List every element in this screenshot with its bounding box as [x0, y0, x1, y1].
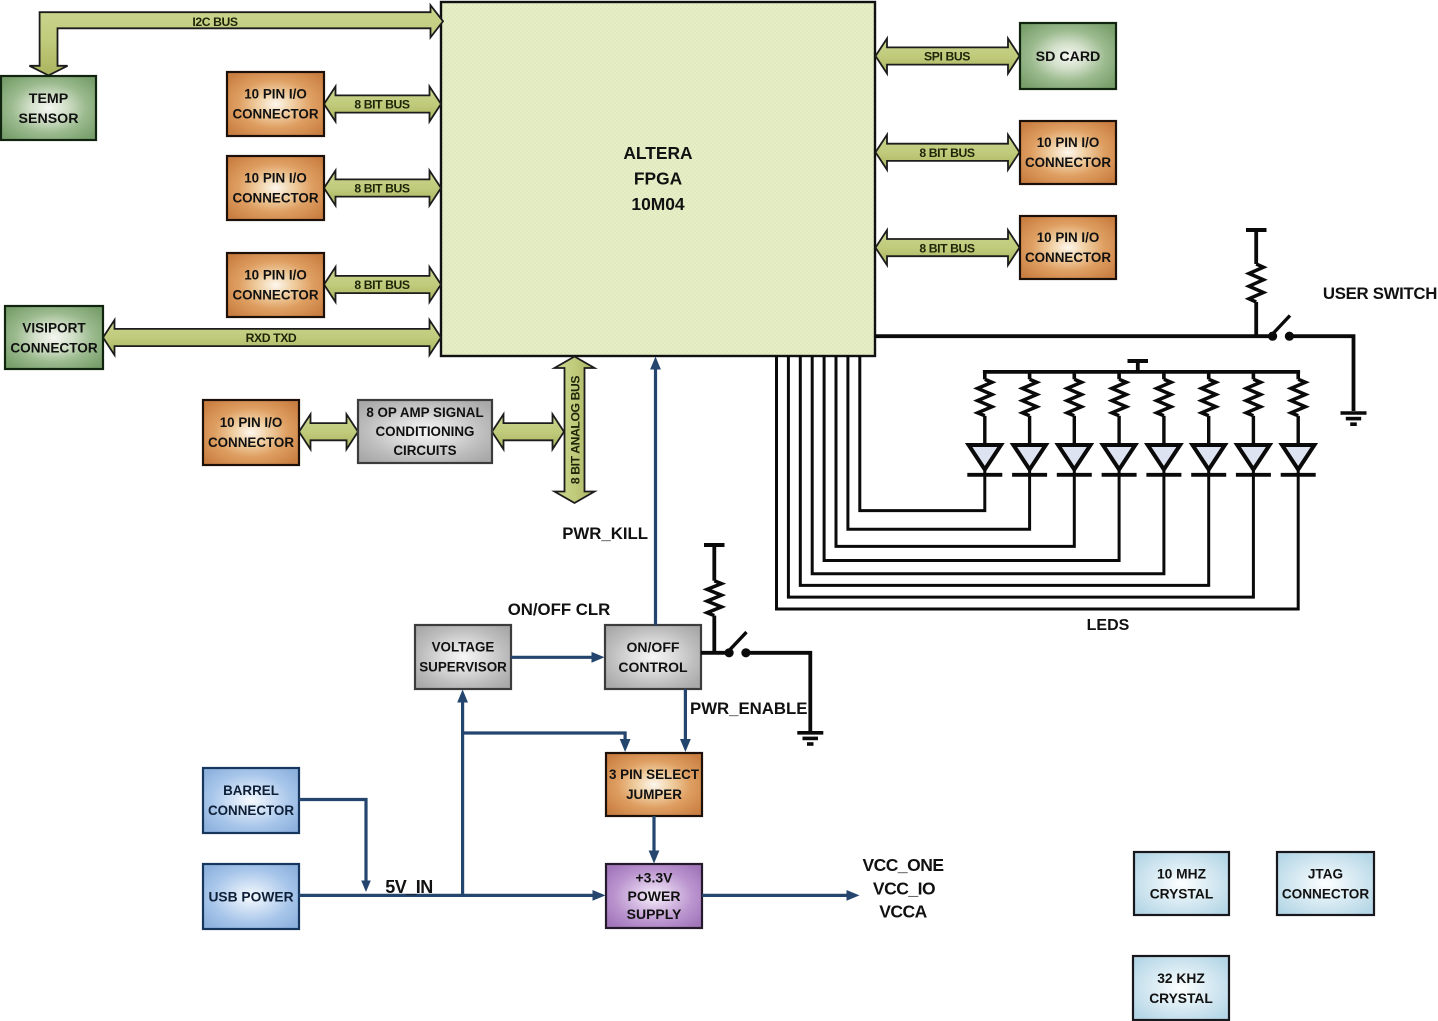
svg-text:CONNECTOR: CONNECTOR	[10, 340, 98, 355]
svg-text:CONTROL: CONTROL	[618, 659, 688, 675]
wire 8 bit bus arrow	[324, 267, 441, 302]
resistor R6 (LED 6)	[1207, 372, 1211, 379]
ground (on/off switch)	[797, 731, 823, 735]
visiport connector	[5, 306, 103, 369]
svg-text:CRYSTAL: CRYSTAL	[1150, 886, 1214, 901]
wire FPGA pin 5 to LED 4	[824, 356, 1119, 561]
wire 8 bit bus arrow	[876, 230, 1020, 265]
svg-text:32 KHZ: 32 KHZ	[1157, 971, 1205, 986]
power rail bar (user switch pull-up)	[1246, 228, 1267, 232]
wire FPGA pin 1 to LED 8	[777, 356, 1299, 609]
10 pin I/O connector 2	[227, 156, 324, 220]
10 pin I/O connector 4	[1020, 121, 1116, 184]
resistor R2 (LED 2)	[1028, 372, 1032, 379]
wire ON/OFF CLR (voltage supervisor to on/off control)	[511, 656, 597, 659]
svg-text:BARREL: BARREL	[223, 783, 279, 798]
LED D2	[1012, 445, 1047, 475]
LED D3	[1057, 445, 1092, 475]
3 pin select jumper	[606, 753, 702, 816]
svg-text:8 BIT BUS: 8 BIT BUS	[354, 278, 410, 292]
svg-text:8 OP AMP SIGNAL: 8 OP AMP SIGNAL	[366, 405, 483, 420]
wire PWR_KILL (on/off control to FPGA)	[654, 362, 657, 625]
power rail bar (on/off pull-up)	[704, 543, 725, 547]
wire RXD TXD arrow	[103, 320, 441, 355]
svg-text:3 PIN SELECT: 3 PIN SELECT	[609, 767, 700, 782]
resistor R3 (LED 3)	[1073, 372, 1077, 379]
10 MHz crystal	[1134, 852, 1229, 915]
+3.3V power supply	[606, 864, 702, 928]
svg-text:VCC_ONE: VCC_ONE	[862, 855, 943, 875]
resistor R5 (LED 5)	[1162, 372, 1166, 379]
svg-text:VCC_IO: VCC_IO	[873, 879, 935, 899]
wire resistor to switch node	[1254, 302, 1258, 338]
svg-text:CONNECTOR: CONNECTOR	[1025, 155, 1111, 170]
LED D4	[1102, 445, 1137, 475]
svg-text:8 BIT BUS: 8 BIT BUS	[354, 98, 410, 112]
svg-text:USB POWER: USB POWER	[208, 889, 293, 904]
wire bus arrow opamp-to-analogbus	[492, 414, 564, 449]
svg-text:VCCA: VCCA	[879, 902, 927, 922]
LED D6	[1191, 445, 1226, 475]
svg-text:SUPPLY: SUPPLY	[627, 906, 682, 922]
svg-text:10M04: 10M04	[631, 194, 685, 214]
svg-text:PWR_KILL: PWR_KILL	[562, 524, 648, 543]
wire I2C bus arrow	[29, 5, 443, 75]
10 pin I/O connector 1	[227, 72, 324, 136]
svg-text:10 PIN I/O: 10 PIN I/O	[1037, 230, 1100, 245]
svg-text:LEDS: LEDS	[1087, 617, 1130, 634]
svg-text:CONNECTOR: CONNECTOR	[232, 191, 318, 206]
resistor R_onoff pull-up	[707, 581, 721, 616]
wire resistor to switch node	[712, 616, 716, 655]
svg-text:10 PIN I/O: 10 PIN I/O	[244, 87, 307, 102]
resistor R7 (LED 7)	[1252, 372, 1256, 379]
svg-text:10 MHZ: 10 MHZ	[1157, 866, 1207, 881]
svg-text:JTAG: JTAG	[1308, 866, 1343, 881]
wire jumper to power supply	[652, 816, 655, 858]
svg-text:VISIPORT: VISIPORT	[22, 320, 86, 335]
resistor R8 (LED 8)	[1296, 372, 1300, 379]
svg-text:SPI BUS: SPI BUS	[924, 50, 970, 64]
resistor R4 (LED 4)	[1117, 372, 1121, 379]
32 KHz crystal	[1133, 956, 1229, 1020]
10 pin I/O connector 3	[227, 253, 324, 317]
wire FPGA pin 3 to LED 6	[800, 356, 1208, 585]
LED D5	[1146, 445, 1181, 475]
svg-text:10 PIN I/O: 10 PIN I/O	[220, 415, 283, 430]
svg-text:FPGA: FPGA	[634, 169, 683, 189]
svg-text:CONNECTOR: CONNECTOR	[232, 288, 318, 303]
FPGA U1 ALTERA 10M04	[441, 2, 875, 356]
wire SPI bus arrow	[876, 39, 1020, 74]
wire switch to ground	[1289, 336, 1353, 411]
wire 8 bit analog bus arrow	[555, 357, 595, 504]
JTAG connector	[1277, 852, 1374, 915]
svg-text:SUPERVISOR: SUPERVISOR	[419, 660, 507, 675]
wire on/off control to switch	[701, 651, 729, 655]
svg-text:USER SWITCH: USER SWITCH	[1323, 284, 1437, 303]
wire 5V branch to jumper	[463, 733, 625, 747]
svg-text:8 BIT BUS: 8 BIT BUS	[919, 146, 975, 160]
wire 8 bit bus arrow	[324, 171, 441, 206]
temp sensor	[1, 76, 96, 140]
switch SW1 user switch	[1268, 316, 1294, 341]
LED D1	[967, 445, 1002, 475]
svg-text:5V_IN: 5V_IN	[385, 877, 433, 897]
voltage supervisor	[415, 625, 511, 689]
wire 8 bit bus arrow	[324, 87, 441, 122]
svg-text:VOLTAGE: VOLTAGE	[432, 640, 495, 655]
on/off control	[605, 625, 701, 689]
resistor R1 (LED 1)	[983, 372, 987, 379]
svg-text:CRYSTAL: CRYSTAL	[1149, 991, 1213, 1006]
LED D8	[1281, 445, 1316, 475]
wire power supply output VCC	[702, 894, 852, 897]
wire FPGA pin 7 to LED 2	[848, 356, 1030, 529]
svg-text:PWR_ENABLE: PWR_ENABLE	[690, 699, 807, 718]
svg-text:CONNECTOR: CONNECTOR	[232, 107, 318, 122]
10 pin I/O connector 6	[203, 400, 299, 465]
power rail bar (LED supply)	[1128, 359, 1149, 363]
svg-text:8 BIT BUS: 8 BIT BUS	[354, 182, 410, 196]
resistor R_user pull-up	[1249, 264, 1263, 302]
svg-text:ON/OFF CLR: ON/OFF CLR	[508, 600, 611, 619]
wire switch to ground	[746, 653, 810, 731]
svg-text:CIRCUITS: CIRCUITS	[393, 443, 456, 458]
switch SW2 on/off	[725, 632, 751, 657]
svg-text:10 PIN I/O: 10 PIN I/O	[1037, 135, 1100, 150]
ground (user switch)	[1341, 411, 1367, 415]
wire FPGA pin 4 to LED 5	[812, 356, 1164, 574]
op-amp signal conditioning	[358, 400, 492, 463]
svg-text:CONNECTOR: CONNECTOR	[208, 435, 294, 450]
svg-text:SENSOR: SENSOR	[19, 111, 79, 127]
svg-text:JUMPER: JUMPER	[626, 787, 682, 802]
10 pin I/O connector 5	[1020, 216, 1116, 279]
svg-text:8 BIT BUS: 8 BIT BUS	[919, 241, 975, 255]
wire bus arrow connector-to-opamp	[299, 414, 358, 449]
svg-text:ALTERA: ALTERA	[623, 143, 693, 163]
wire barrel connector to 5V node	[299, 800, 366, 885]
svg-text:SD CARD: SD CARD	[1036, 49, 1101, 65]
LED D7	[1236, 445, 1271, 475]
svg-text:+3.3V: +3.3V	[636, 870, 674, 886]
wire FPGA pin 6 to LED 3	[836, 356, 1074, 546]
wire 5V to voltage supervisor	[461, 695, 464, 895]
svg-text:CONDITIONING: CONDITIONING	[376, 424, 475, 439]
node VCC_ONE VCC_IO VCCA labels	[862, 855, 943, 922]
svg-text:8 BIT ANALOG BUS: 8 BIT ANALOG BUS	[569, 376, 583, 485]
svg-text:TEMP: TEMP	[29, 91, 68, 107]
wire FPGA pin 8 to LED 1	[860, 356, 985, 511]
wire FPGA pin 2 to LED 7	[788, 356, 1253, 597]
svg-text:10 PIN I/O: 10 PIN I/O	[244, 171, 307, 186]
svg-text:CONNECTOR: CONNECTOR	[1282, 886, 1370, 901]
svg-text:POWER: POWER	[628, 888, 681, 904]
barrel connector	[203, 768, 299, 833]
wire PWR_ENABLE (on/off control to jumper)	[684, 689, 687, 747]
wire USB power / 5V_IN to power supply	[299, 894, 598, 897]
wire 8 bit bus arrow	[876, 135, 1020, 170]
wire LED anode rail	[983, 370, 1300, 374]
svg-text:CONNECTOR: CONNECTOR	[208, 803, 294, 818]
svg-text:I2C BUS: I2C BUS	[192, 15, 238, 29]
SD card	[1020, 23, 1116, 89]
svg-text:10 PIN I/O: 10 PIN I/O	[244, 268, 307, 283]
wire FPGA to user switch	[875, 334, 1272, 338]
svg-text:ON/OFF: ON/OFF	[627, 639, 680, 655]
svg-text:CONNECTOR: CONNECTOR	[1025, 250, 1111, 265]
USB power	[203, 864, 299, 929]
svg-text:RXD TXD: RXD TXD	[246, 331, 297, 345]
